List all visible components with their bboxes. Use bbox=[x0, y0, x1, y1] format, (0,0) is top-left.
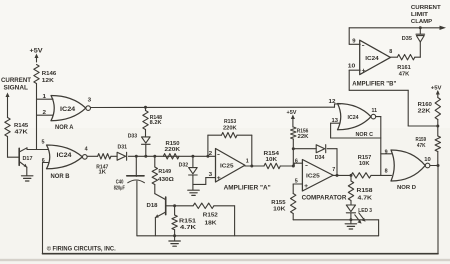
svg-text:COMPARATOR: COMPARATOR bbox=[302, 195, 347, 201]
ground (D17 emitter) bbox=[22, 176, 33, 181]
resistor R145 bbox=[5, 118, 28, 137]
wire comparator bottom rail bbox=[293, 220, 378, 236]
wire feedback left riser bbox=[207, 135, 209, 156]
svg-text:R153: R153 bbox=[224, 119, 236, 125]
svg-text:IC24: IC24 bbox=[365, 56, 379, 62]
pin 9 (amp B) bbox=[352, 39, 355, 45]
svg-text:IC25: IC25 bbox=[220, 163, 234, 169]
svg-text:R154: R154 bbox=[264, 151, 280, 157]
svg-text:R161: R161 bbox=[397, 65, 411, 71]
svg-text:R158: R158 bbox=[357, 188, 374, 194]
resistor R158 bbox=[348, 175, 373, 201]
wire amp A output bbox=[245, 165, 264, 167]
node CURRENT LIMIT CLAMP label bbox=[411, 5, 441, 25]
svg-text:CLAMP: CLAMP bbox=[411, 19, 432, 25]
wire R157 to NOR D pin8 bbox=[371, 174, 392, 176]
resistor R154 bbox=[264, 151, 281, 169]
svg-text:IC24: IC24 bbox=[57, 153, 73, 159]
resistor R149 bbox=[152, 156, 174, 184]
page bottom scan shadow bbox=[0, 259, 450, 261]
svg-text:9: 9 bbox=[385, 149, 388, 155]
diode D31 bbox=[117, 145, 127, 161]
nor-gate U1 NOR A (IC24) bbox=[51, 96, 91, 132]
svg-text:© FIRING CIRCUITS, INC.: © FIRING CIRCUITS, INC. bbox=[47, 245, 116, 253]
led LED 3 bbox=[346, 205, 372, 224]
svg-text:IC24: IC24 bbox=[60, 107, 76, 113]
svg-text:IC25: IC25 bbox=[306, 173, 321, 179]
svg-text:NOR B: NOR B bbox=[51, 174, 71, 180]
pin 5 (comparator) bbox=[295, 179, 298, 185]
power +5V (left) bbox=[30, 48, 44, 63]
resistor R159 bbox=[416, 136, 441, 152]
node R148/D33 junction top bbox=[144, 106, 147, 109]
svg-text:+: + bbox=[217, 176, 222, 182]
svg-text:10K: 10K bbox=[359, 161, 370, 167]
wire R147 to D31 bbox=[111, 155, 117, 157]
svg-text:AMPLIFIER "B": AMPLIFIER "B" bbox=[352, 81, 396, 87]
svg-text:820μF: 820μF bbox=[114, 185, 125, 191]
wire NOR C output to NOR D pin9 bbox=[376, 117, 392, 176]
ground (LED 3) bbox=[345, 220, 356, 229]
wire amp A pin3 step bbox=[193, 178, 216, 185]
wire NOR A output to NOR C pin 12 bbox=[90, 104, 340, 108]
svg-text:1: 1 bbox=[246, 159, 249, 165]
resistor R160 bbox=[418, 98, 441, 120]
wire bottom feedback rail bbox=[43, 253, 439, 255]
wire R158 to LED3 bbox=[350, 201, 352, 206]
svg-text:NOR A: NOR A bbox=[55, 125, 74, 131]
svg-text:CURRENT: CURRENT bbox=[1, 77, 31, 84]
svg-text:CURRENT: CURRENT bbox=[411, 5, 441, 11]
wire comparator pin5 bbox=[293, 184, 302, 194]
svg-text:NOR D: NOR D bbox=[397, 185, 416, 191]
svg-text:8: 8 bbox=[385, 168, 388, 174]
svg-text:430Ω: 430Ω bbox=[158, 177, 175, 183]
svg-text:R152: R152 bbox=[203, 213, 218, 219]
resistor R155 bbox=[271, 194, 296, 220]
svg-text:2: 2 bbox=[209, 151, 213, 157]
resistor R146 bbox=[34, 65, 57, 85]
wire D33 to main node bbox=[144, 144, 147, 157]
pin 2 bbox=[37, 110, 54, 116]
resistor R151 bbox=[172, 206, 197, 236]
svg-text:3: 3 bbox=[88, 97, 92, 103]
svg-text:+: + bbox=[362, 69, 367, 75]
svg-text:D34: D34 bbox=[315, 155, 326, 161]
wire R161 to D35 bbox=[415, 42, 421, 57]
wire R154 to comparator pin6 bbox=[280, 163, 302, 167]
svg-text:7: 7 bbox=[332, 167, 335, 173]
svg-text:D17: D17 bbox=[23, 156, 33, 162]
resistor R156 bbox=[291, 127, 309, 140]
node D32 junction bbox=[191, 155, 194, 158]
pin 10 (amp B) bbox=[348, 64, 356, 70]
nor-gate U2 NOR B (IC24) bbox=[47, 145, 88, 180]
svg-text:4.7K: 4.7K bbox=[358, 195, 373, 201]
svg-text:+: + bbox=[304, 184, 309, 190]
diode D34 bbox=[315, 145, 326, 162]
svg-text:8: 8 bbox=[389, 49, 392, 55]
svg-text:47K: 47K bbox=[15, 130, 28, 136]
power +5V (middle) bbox=[287, 110, 298, 127]
resistor R147 bbox=[96, 154, 111, 176]
ground (D32 / amp A pin3) bbox=[188, 190, 199, 195]
power +5V (right) bbox=[431, 85, 442, 97]
svg-text:R145: R145 bbox=[14, 123, 28, 129]
wire amp B output bbox=[391, 56, 398, 58]
wire D34 cathode to comparator output bbox=[327, 149, 338, 177]
resistor R148 bbox=[143, 107, 162, 129]
wire R149 to D18 collector bbox=[154, 185, 156, 194]
wire main node line bbox=[128, 155, 215, 157]
wire comparator output bbox=[333, 174, 352, 177]
svg-text:10K: 10K bbox=[273, 207, 285, 213]
wire current limit clamp rail bbox=[349, 26, 446, 30]
svg-text:10: 10 bbox=[424, 157, 431, 163]
wire R156 to pin6 node bbox=[292, 139, 294, 166]
node LED ground junction bbox=[349, 218, 352, 221]
resistor R161 bbox=[397, 55, 415, 78]
pin 1 bbox=[37, 94, 54, 100]
wire D32 to ground bbox=[192, 175, 194, 190]
wire R159 to NOR D output bbox=[437, 152, 439, 166]
wire NOR B output bbox=[87, 155, 98, 157]
svg-text:12: 12 bbox=[329, 99, 336, 105]
node amp A pin2 feedback junction bbox=[206, 155, 209, 158]
svg-text:+5V: +5V bbox=[30, 48, 44, 55]
nor-gate U4 NOR D (IC24) bbox=[391, 150, 431, 191]
pin 9 (NOR D) bbox=[385, 149, 388, 155]
svg-text:SIGNAL: SIGNAL bbox=[4, 85, 29, 92]
pin 3 (amp A) bbox=[209, 172, 213, 178]
svg-text:10: 10 bbox=[348, 64, 356, 70]
svg-text:AMPLIFIER "A": AMPLIFIER "A" bbox=[224, 184, 271, 191]
wire NOR D output down to bottom rail bbox=[437, 166, 439, 254]
transistor D18 bbox=[147, 194, 175, 236]
svg-text:10K: 10K bbox=[266, 157, 278, 163]
svg-text:22K: 22K bbox=[418, 109, 431, 115]
ground (R151) bbox=[169, 236, 180, 246]
svg-text:11: 11 bbox=[372, 108, 378, 114]
resistor R157 bbox=[351, 155, 371, 178]
svg-text:18K: 18K bbox=[205, 220, 218, 226]
svg-text:9: 9 bbox=[352, 39, 355, 45]
svg-text:220K: 220K bbox=[165, 147, 181, 153]
wire amp B pin10 loop bbox=[349, 70, 438, 126]
svg-text:D31: D31 bbox=[118, 145, 128, 151]
wire to C40 bbox=[135, 156, 137, 176]
svg-text:LED 3: LED 3 bbox=[358, 208, 372, 214]
svg-text:D18: D18 bbox=[147, 203, 159, 209]
wire R145 to D17 base bbox=[8, 137, 19, 158]
svg-text:R149: R149 bbox=[158, 169, 171, 175]
svg-text:4: 4 bbox=[85, 147, 88, 153]
op-amp IC24 AMPLIFIER B bbox=[352, 40, 396, 87]
pin 12 bbox=[329, 99, 336, 105]
svg-text:D33: D33 bbox=[128, 133, 138, 139]
svg-text:R146: R146 bbox=[42, 71, 57, 77]
resistor R152 bbox=[175, 203, 218, 226]
wire NOR C pin13 loop bbox=[331, 123, 381, 138]
wire NOR D output bbox=[430, 164, 440, 167]
wire amp B pin9 to clamp rail bbox=[349, 28, 360, 45]
svg-text:D35: D35 bbox=[402, 36, 412, 42]
wire R146 to NOR inputs bbox=[36, 84, 38, 150]
node D34 tap bbox=[292, 147, 295, 150]
svg-text:5: 5 bbox=[42, 140, 45, 146]
svg-text:-: - bbox=[305, 164, 308, 170]
node D18 base junction bbox=[173, 204, 176, 207]
wire R160 to junction bbox=[436, 120, 439, 137]
pin 6 (comparator) bbox=[295, 158, 298, 164]
node R149 junction bbox=[153, 155, 156, 158]
copyright text bbox=[47, 245, 116, 253]
wire D34 anode bbox=[293, 148, 316, 150]
pin 13 bbox=[331, 118, 340, 124]
wire R152 to bottom rail bbox=[214, 206, 235, 236]
svg-text:NOR C: NOR C bbox=[356, 132, 374, 138]
pin 8 (NOR D) bbox=[385, 168, 388, 174]
node R151 bottom junction bbox=[173, 234, 176, 237]
node CURRENT SIGNAL bbox=[1, 77, 31, 118]
svg-text:8.2K: 8.2K bbox=[150, 120, 162, 126]
pin 2 (amp A) bbox=[209, 151, 213, 157]
svg-text:47K: 47K bbox=[417, 143, 426, 149]
op-amp IC25 COMPARATOR bbox=[302, 160, 347, 202]
svg-text:+5V: +5V bbox=[287, 110, 298, 116]
svg-text:IC24: IC24 bbox=[348, 115, 360, 121]
svg-text:-: - bbox=[217, 153, 220, 159]
nor-gate U3 NOR C (IC24) bbox=[338, 104, 378, 139]
wire R148 to D33 bbox=[145, 130, 147, 137]
op-amp IC25 AMPLIFIER A bbox=[216, 149, 271, 192]
diode D33 bbox=[128, 133, 150, 144]
pin 5 bbox=[42, 140, 45, 146]
svg-text:3: 3 bbox=[209, 172, 213, 178]
capacitor C40 bbox=[114, 176, 145, 236]
svg-text:LIMIT: LIMIT bbox=[411, 12, 429, 18]
svg-text:-: - bbox=[362, 44, 365, 50]
wire D17 collector to NOR B pin5 node bbox=[27, 148, 49, 150]
resistor R153 (feedback) bbox=[208, 119, 252, 138]
wire feedback right riser bbox=[250, 135, 253, 167]
transistor D17 bbox=[19, 148, 32, 176]
svg-text:R155: R155 bbox=[271, 200, 285, 206]
svg-text:D32: D32 bbox=[179, 162, 189, 168]
resistor R150 bbox=[163, 141, 181, 159]
diode D35 bbox=[402, 34, 425, 42]
wire NOR B pin6 feedback (left riser) bbox=[42, 163, 44, 254]
svg-text:22K: 22K bbox=[298, 134, 309, 140]
svg-text:6: 6 bbox=[295, 158, 298, 164]
diode D32 bbox=[179, 156, 198, 175]
wire bottom-middle rail bbox=[137, 235, 379, 237]
pin 6 bbox=[42, 158, 49, 164]
node C40 junction bbox=[135, 155, 138, 158]
svg-text:R151: R151 bbox=[179, 218, 197, 224]
svg-text:1K: 1K bbox=[99, 170, 107, 176]
svg-text:220K: 220K bbox=[223, 126, 237, 132]
svg-text:12K: 12K bbox=[42, 78, 54, 84]
svg-text:+5V: +5V bbox=[431, 85, 442, 91]
svg-text:4.7K: 4.7K bbox=[180, 225, 197, 231]
svg-text:47K: 47K bbox=[399, 71, 410, 77]
wire D35 to clamp rail bbox=[419, 26, 422, 33]
svg-text:R160: R160 bbox=[418, 102, 432, 108]
